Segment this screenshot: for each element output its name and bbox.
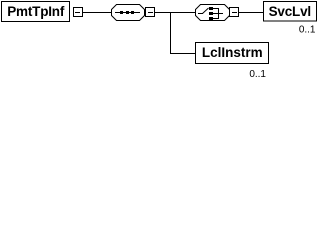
svg-text:0..1: 0..1 bbox=[299, 24, 316, 35]
svg-text:PmtTpInf: PmtTpInf bbox=[7, 4, 65, 19]
expand handle H1 (minus) bbox=[74, 8, 83, 17]
expand handle H2 (minus) bbox=[146, 8, 155, 17]
sequence compositor bbox=[112, 5, 145, 21]
wire PmtTpInf handle to sequence bbox=[83, 12, 111, 13]
element box PmtTpInf bbox=[2, 2, 70, 22]
svg-text:LclInstrm: LclInstrm bbox=[202, 45, 263, 60]
wire sequence to choice bbox=[155, 12, 196, 13]
element box SvcLvl bbox=[264, 2, 317, 22]
svg-text:SvcLvl: SvcLvl bbox=[269, 4, 311, 19]
wire branch down to LclInstrm bbox=[170, 12, 196, 54]
element box LclInstrm bbox=[196, 43, 269, 64]
choice compositor bbox=[196, 5, 230, 21]
expand handle H3 (minus) bbox=[230, 8, 239, 17]
wire choice to SvcLvl bbox=[239, 12, 264, 13]
svg-text:0..1: 0..1 bbox=[249, 69, 266, 80]
